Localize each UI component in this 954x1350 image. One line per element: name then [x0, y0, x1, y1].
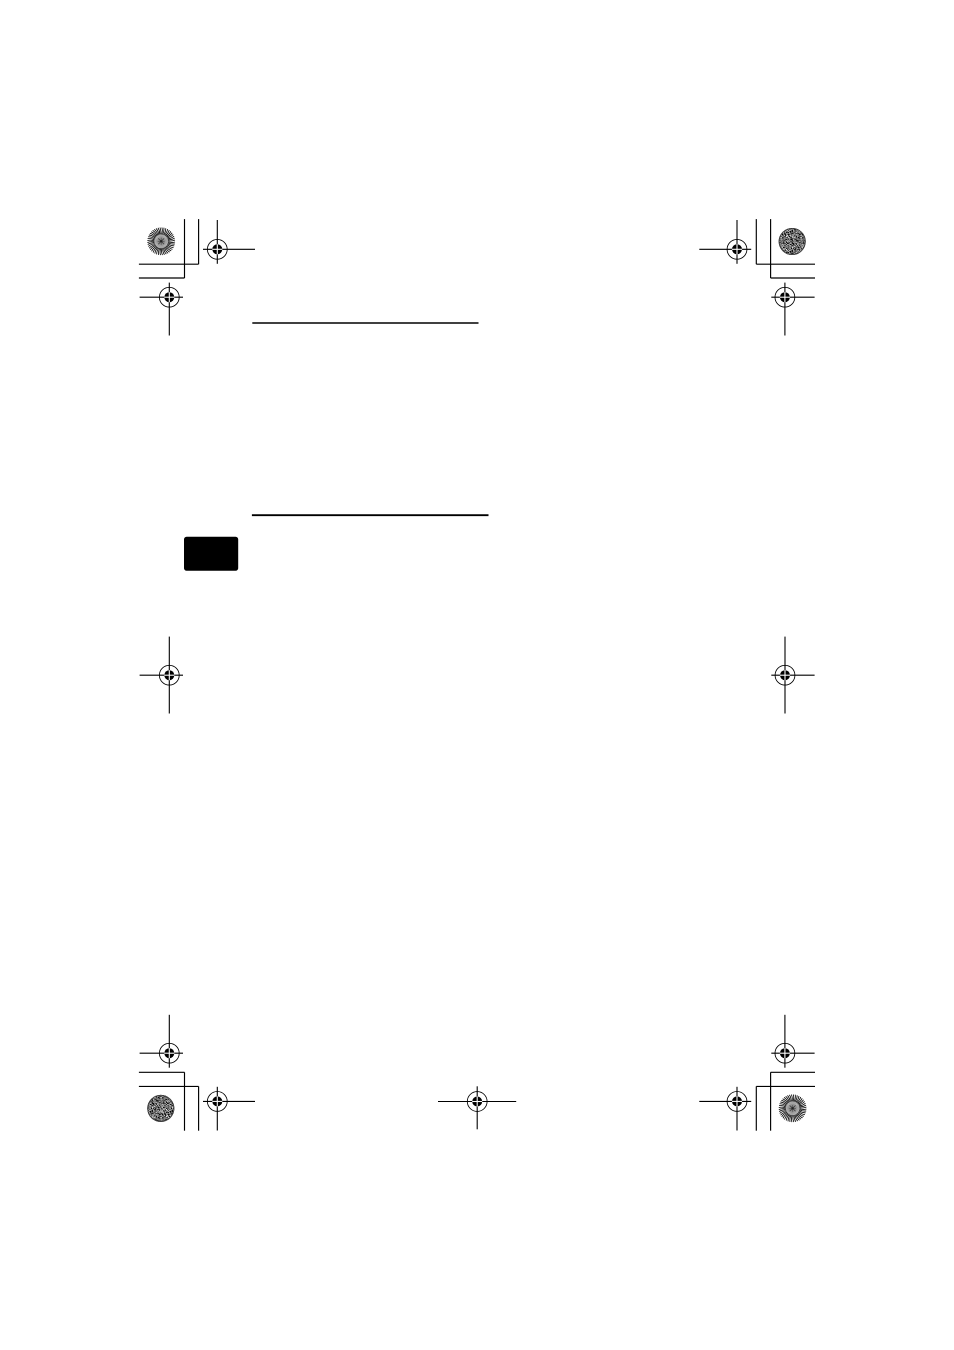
crop mark TR horizontal outer [771, 277, 815, 279]
color control patch bottom-right (starburst) [779, 1094, 807, 1122]
registration mark top-left A [203, 220, 255, 264]
crop mark BR horizontal inner [756, 1085, 815, 1087]
crop mark BR vertical outer [770, 1072, 772, 1130]
color control patch top-right (grain) [779, 228, 806, 255]
registration mark bottom-left A [140, 1015, 183, 1068]
registration mark bottom-center [438, 1086, 516, 1129]
registration mark mid-left [140, 637, 183, 714]
registration mark top-right B [771, 283, 814, 336]
crop mark BR vertical inner [755, 1086, 757, 1130]
rule line upper [252, 322, 478, 324]
crop mark TR horizontal inner [756, 263, 815, 265]
crop mark TR vertical outer [770, 219, 772, 278]
color control patch bottom-left (grain) [147, 1095, 174, 1122]
crop mark TL vertical inner [198, 219, 200, 264]
crop mark TL horizontal outer [139, 277, 185, 279]
registration mark bottom-right A [771, 1015, 814, 1068]
color control patch top-left (starburst) [147, 227, 175, 255]
crop mark BL horizontal inner [139, 1085, 199, 1087]
black tab (rounded rectangle) [184, 537, 238, 571]
crop mark BL vertical outer [184, 1072, 186, 1130]
crop mark TL vertical outer [184, 219, 186, 278]
crop mark BR horizontal outer [771, 1071, 815, 1073]
registration mark mid-right [771, 637, 814, 714]
registration mark top-left B [140, 283, 183, 336]
registration mark top-right A [699, 220, 751, 264]
crop mark BL vertical inner [198, 1086, 200, 1130]
registration mark bottom-left B [203, 1087, 255, 1131]
registration mark bottom-right B [699, 1087, 751, 1131]
crop mark BL horizontal outer [139, 1071, 185, 1073]
crop mark TR vertical inner [755, 219, 757, 264]
rule line lower [252, 514, 489, 516]
crop mark TL horizontal inner [139, 263, 199, 265]
